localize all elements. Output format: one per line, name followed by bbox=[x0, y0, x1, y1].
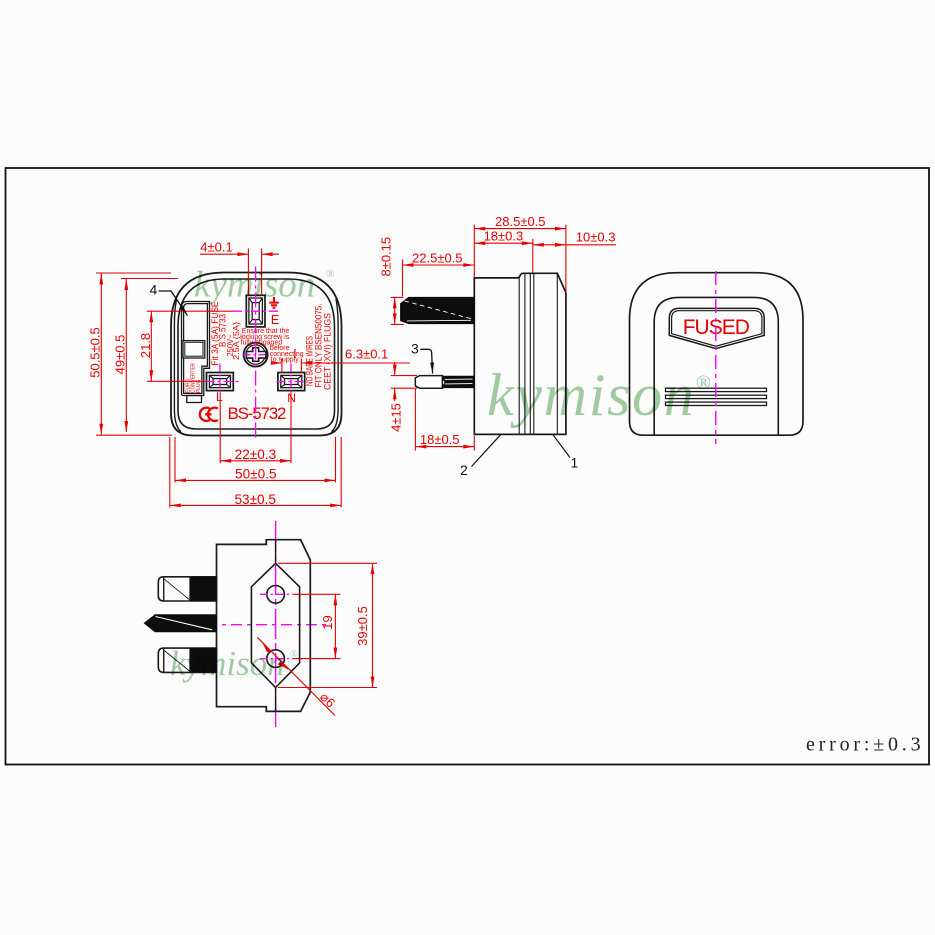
svg-text:4: 4 bbox=[150, 282, 158, 298]
dimension 39±0.5 bbox=[278, 563, 377, 687]
euro converter plug outline bbox=[182, 302, 210, 403]
svg-text:8±0.15: 8±0.15 bbox=[379, 237, 394, 277]
upper pin hole bbox=[267, 586, 285, 604]
locking screw bbox=[244, 343, 268, 367]
hole centerline upper bbox=[260, 593, 292, 595]
top pin bottom view bbox=[158, 577, 216, 601]
earth pin side view bbox=[401, 297, 475, 323]
bottom view body outline bbox=[217, 540, 311, 712]
watermark kymison bottom view bbox=[170, 644, 298, 683]
svg-text:4±0.1: 4±0.1 bbox=[200, 240, 232, 255]
svg-text:53±0.5: 53±0.5 bbox=[234, 492, 275, 507]
red tick near supply text bbox=[294, 349, 296, 358]
svg-text:22.5±0.5: 22.5±0.5 bbox=[412, 251, 463, 266]
svg-text:kymison: kymison bbox=[170, 644, 285, 683]
svg-text:L: L bbox=[216, 390, 223, 404]
dimension 22.5±0.5 bbox=[403, 260, 475, 297]
diameter 6 leader bbox=[257, 637, 335, 715]
warning vertical texts right side bbox=[304, 304, 333, 391]
hole centerline lower bbox=[260, 658, 292, 660]
dimension 22±0.3 bbox=[220, 392, 291, 463]
svg-text:50.5±0.5: 50.5±0.5 bbox=[88, 327, 103, 378]
svg-text:to supply.: to supply. bbox=[271, 356, 300, 363]
dimension 18±0.3 bbox=[474, 239, 533, 273]
neutral pin socket N bbox=[278, 373, 305, 391]
svg-text:19: 19 bbox=[320, 615, 335, 629]
dimension 19 bbox=[292, 594, 340, 658]
dimension 53±0.5 bbox=[170, 437, 341, 508]
front view centerline vertical bbox=[255, 267, 257, 442]
centerline through E pin bbox=[233, 310, 279, 312]
body parting line segments bbox=[275, 540, 277, 712]
centerline L pin vertical bbox=[219, 364, 221, 393]
svg-text:2.5A (5A): 2.5A (5A) bbox=[231, 322, 241, 360]
svg-text:50±0.5: 50±0.5 bbox=[235, 467, 276, 482]
dimension 50.5 extension lines bbox=[96, 273, 178, 435]
vent slots bbox=[666, 388, 767, 405]
dimension 50±0.5 bbox=[175, 437, 336, 483]
dimension 8±0.15 bbox=[391, 297, 404, 324]
front view outer body outline bbox=[171, 273, 342, 436]
centerline through N pin bbox=[277, 381, 308, 383]
svg-text:CEET (XVI) FLUGS: CEET (XVI) FLUGS bbox=[322, 313, 333, 390]
dimension 28.5±0.5 bbox=[474, 225, 566, 294]
fused window plate bbox=[669, 308, 764, 348]
svg-text:28.5±0.5: 28.5±0.5 bbox=[495, 214, 546, 229]
svg-text:3: 3 bbox=[411, 341, 419, 357]
dimension 18±0.5 bbox=[415, 389, 474, 451]
svg-text:10±0.3: 10±0.3 bbox=[576, 230, 616, 245]
live pin socket L bbox=[207, 373, 234, 391]
svg-text:39±0.5: 39±0.5 bbox=[355, 606, 370, 646]
svg-text:BS-5732: BS-5732 bbox=[228, 404, 287, 423]
bottom view centerline horizontal bbox=[206, 624, 331, 626]
svg-text:18±0.3: 18±0.3 bbox=[484, 229, 524, 244]
bottom view centerline vertical bbox=[275, 521, 277, 727]
euro plug fuse window bbox=[183, 341, 205, 358]
border frame bbox=[6, 168, 930, 765]
front view inner face outline bbox=[178, 279, 335, 429]
bottom pin bottom view bbox=[158, 648, 216, 672]
svg-text:6.3±0.1: 6.3±0.1 bbox=[345, 347, 388, 362]
front view side contour lines bbox=[174, 299, 338, 432]
svg-text:®: ® bbox=[696, 372, 711, 394]
earth pin bottom view bbox=[144, 615, 216, 632]
side view body outline bbox=[474, 273, 566, 434]
dimension 10±0.3 bbox=[533, 244, 616, 246]
dimension 50.5±0.5 bbox=[100, 274, 102, 435]
svg-text:2: 2 bbox=[460, 462, 468, 478]
svg-text:22±0.3: 22±0.3 bbox=[235, 447, 276, 462]
svg-text:N: N bbox=[287, 391, 296, 405]
dimension 4±0.1 bbox=[200, 249, 279, 296]
fuse rating vertical texts bbox=[210, 302, 241, 366]
watermark kymison front view bbox=[194, 265, 335, 306]
svg-text:®: ® bbox=[326, 268, 335, 280]
svg-text:kymison: kymison bbox=[194, 265, 315, 306]
euro converter plug label text bbox=[185, 363, 202, 393]
svg-text:®: ® bbox=[290, 650, 298, 661]
svg-text:1: 1 bbox=[571, 455, 579, 471]
earth symbol bbox=[269, 297, 278, 308]
back view centerline bbox=[715, 271, 717, 444]
svg-text:error:±0.3: error:±0.3 bbox=[806, 734, 924, 756]
line pin side view bbox=[415, 376, 473, 389]
svg-text:18±0.5: 18±0.5 bbox=[420, 432, 460, 447]
dimension 4±15 bbox=[391, 362, 417, 401]
lower pin hole bbox=[267, 650, 285, 668]
svg-text:4±15: 4±15 bbox=[389, 403, 404, 432]
centerline N pin vertical bbox=[290, 364, 292, 393]
back view outer outline bbox=[630, 273, 804, 436]
CE mark bbox=[200, 408, 218, 421]
euro socket hexagonal recess bbox=[251, 563, 299, 687]
centerline through L pin bbox=[206, 381, 242, 383]
earth pin socket E bbox=[246, 295, 265, 327]
centerline through screw bbox=[244, 354, 269, 356]
svg-text:E: E bbox=[271, 312, 280, 327]
svg-text:21.8: 21.8 bbox=[138, 333, 153, 358]
dimension 49±0.5 bbox=[125, 279, 127, 432]
dimension 21.8 bbox=[147, 311, 233, 381]
svg-text:49±0.5: 49±0.5 bbox=[113, 335, 128, 375]
dimension 6.3±0.1 bbox=[271, 359, 410, 374]
svg-text:kymison: kymison bbox=[487, 362, 696, 428]
locking screw notice text bbox=[240, 328, 303, 363]
watermark kymison side/back views bbox=[487, 362, 711, 428]
back view inner outline bbox=[654, 297, 778, 435]
